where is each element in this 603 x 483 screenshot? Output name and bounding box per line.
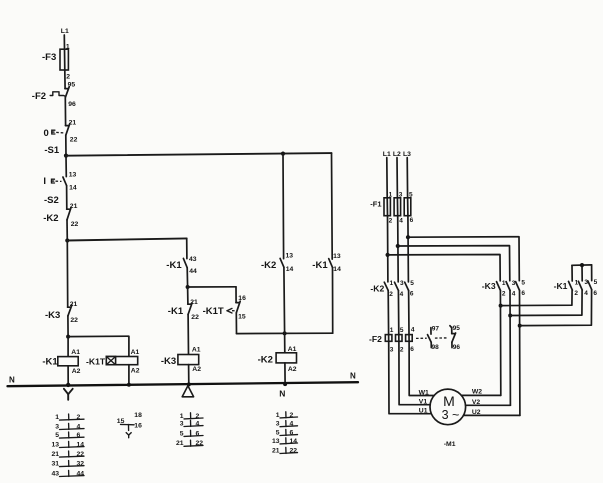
wire K2 contact to node B xyxy=(66,220,68,241)
svg-text:1: 1 xyxy=(575,280,579,287)
svg-text:3: 3 xyxy=(180,420,184,427)
junction dot K2 on N rail xyxy=(283,382,287,386)
svg-text:A1: A1 xyxy=(288,346,297,353)
wire F3 to F2 contact xyxy=(64,70,66,89)
wire L3 to fuse F1 xyxy=(406,158,408,198)
wire F1 pole3 down to K2 xyxy=(407,216,410,282)
svg-text:14: 14 xyxy=(286,266,294,273)
NC contact K3 21-22 xyxy=(68,305,72,316)
svg-text:N: N xyxy=(350,372,356,381)
thermal overload trip symbol of F2 xyxy=(50,92,65,97)
svg-text:-F3: -F3 xyxy=(42,52,56,63)
wire K3 pole3 down to motor U2 xyxy=(519,290,521,415)
svg-text:3: 3 xyxy=(390,346,394,353)
wire coil K1 to N rail xyxy=(67,366,69,385)
dashed link F2 to aux contacts xyxy=(416,337,448,340)
svg-text:98: 98 xyxy=(432,344,440,351)
node K3p1 junction dot xyxy=(499,304,503,308)
svg-text:2: 2 xyxy=(389,291,393,298)
junction dot K1T on N rail xyxy=(127,383,131,387)
wire K3 pole2 tap to K1 pole2 xyxy=(510,290,582,315)
NO aux contact F2 97-98 xyxy=(428,328,432,348)
wire motor W2 lead xyxy=(462,394,501,396)
svg-text:1: 1 xyxy=(390,327,394,334)
svg-text:13: 13 xyxy=(69,172,77,179)
svg-text:43: 43 xyxy=(51,470,59,477)
fuse F1 pole 1 xyxy=(384,198,390,216)
svg-text:5: 5 xyxy=(521,279,525,286)
wire K1 contact down to horizontal xyxy=(332,267,334,333)
svg-text:2: 2 xyxy=(400,346,404,353)
svg-text:1: 1 xyxy=(180,413,184,420)
svg-text:-S1: -S1 xyxy=(44,145,60,156)
wire L2 to fuse F1 xyxy=(396,158,398,198)
wire F1 pole1 down to K2 xyxy=(387,216,389,282)
wire feeder L3 to K3 pole3 xyxy=(408,237,519,281)
wire K3 pole2 down to motor V2 xyxy=(509,290,511,405)
svg-text:-K3: -K3 xyxy=(482,281,496,291)
svg-text:4: 4 xyxy=(512,290,516,297)
svg-text:5: 5 xyxy=(594,279,598,286)
svg-text:22: 22 xyxy=(70,317,78,324)
wire node E to coil K2 xyxy=(284,333,286,352)
svg-text:-K1T: -K1T xyxy=(203,306,224,317)
timed NC contact K1T 16-15 xyxy=(227,301,240,313)
svg-text:1: 1 xyxy=(390,280,394,287)
svg-text:3: 3 xyxy=(276,421,280,428)
coil K2 xyxy=(276,353,296,363)
wire F2 to S1 xyxy=(64,98,66,126)
svg-text:4: 4 xyxy=(400,291,404,298)
wire F2 pole1 to motor U1 xyxy=(389,341,432,413)
wire horizontal rail from S1 to right branches xyxy=(66,153,332,156)
svg-text:-S2: -S2 xyxy=(44,195,59,206)
svg-text:5: 5 xyxy=(410,280,414,287)
svg-text:N: N xyxy=(9,375,15,384)
delta symbol under K3 xyxy=(182,386,193,397)
wire top rail corner down to K1 aux NO xyxy=(331,153,334,259)
wire K3 pole1 down to motor W2 xyxy=(499,290,501,395)
junction dot K1 on N rail xyxy=(66,383,70,387)
motor M1 circle xyxy=(430,389,466,425)
fuse F1 pole 2 xyxy=(394,198,401,216)
svg-text:22: 22 xyxy=(191,314,199,321)
NO contact K2 13-14 xyxy=(280,258,284,267)
svg-text:A1: A1 xyxy=(131,349,140,356)
svg-text:13: 13 xyxy=(286,253,294,260)
contactor K2 main poles xyxy=(384,282,408,290)
node tap L2 junction dot xyxy=(396,244,400,248)
svg-text:-K3: -K3 xyxy=(45,310,60,321)
contact cross-reference table of K3 xyxy=(176,413,203,447)
NO contact K1 13-14 xyxy=(329,259,333,268)
svg-text:4: 4 xyxy=(399,217,403,224)
svg-text:2: 2 xyxy=(389,217,393,224)
N rail xyxy=(8,382,359,386)
svg-text:-K1T: -K1T xyxy=(86,357,106,367)
svg-text:-K2: -K2 xyxy=(370,284,384,294)
wire F2 pole2 to motor V1 xyxy=(399,341,431,404)
wire contact to node D xyxy=(186,268,188,287)
svg-text:L1: L1 xyxy=(383,151,391,158)
node star point junction dot xyxy=(580,263,584,267)
NC aux contact F2 95-96 xyxy=(450,326,456,348)
svg-text:A2: A2 xyxy=(192,366,201,373)
svg-text:W1: W1 xyxy=(419,389,429,396)
wire S2 to K2 NC contact xyxy=(66,186,68,210)
star bridge of K1 xyxy=(572,265,592,281)
svg-text:13: 13 xyxy=(272,438,280,445)
wire node B to K3 NC contact xyxy=(66,241,68,308)
wire node A to S2 xyxy=(65,156,67,177)
wire node D to K1 NC contact xyxy=(187,287,189,304)
pushbutton S2 (start, NO) xyxy=(52,177,67,186)
contact cross-reference table of K1T xyxy=(117,412,142,438)
fuse F3 xyxy=(60,49,68,70)
svg-text:-K1: -K1 xyxy=(42,357,58,368)
svg-text:V1: V1 xyxy=(419,399,428,406)
svg-text:5: 5 xyxy=(400,327,404,334)
svg-text:18: 18 xyxy=(134,412,142,419)
wire K1 NC to coil K3 xyxy=(187,314,189,354)
wire K3 pole1 tap to K1 pole1 xyxy=(501,290,572,305)
node A junction dot xyxy=(64,154,68,158)
coil K1 xyxy=(58,357,78,366)
svg-text:-K1: -K1 xyxy=(312,260,328,271)
star symbol under K1 xyxy=(64,389,73,400)
svg-text:W2: W2 xyxy=(472,389,482,396)
wire L1 to fuse F1 xyxy=(386,158,388,198)
wire K2 pole2 to F2 xyxy=(397,291,399,335)
svg-text:21: 21 xyxy=(272,447,280,454)
svg-text:-F2: -F2 xyxy=(32,91,46,102)
svg-text:3 ~: 3 ~ xyxy=(442,408,460,422)
svg-text:13: 13 xyxy=(51,441,59,448)
svg-text:1: 1 xyxy=(55,414,59,421)
svg-text:96: 96 xyxy=(453,344,461,351)
svg-text:1: 1 xyxy=(276,412,280,419)
wire middle branch down from node B rail xyxy=(186,238,188,258)
svg-text:6: 6 xyxy=(410,217,414,224)
svg-text:4: 4 xyxy=(584,290,588,297)
svg-text:3: 3 xyxy=(55,423,59,430)
wire K2 contact to node E xyxy=(283,267,286,333)
NC contact K1 21-22 xyxy=(188,303,192,314)
wire to K1T timed contact xyxy=(235,287,237,303)
svg-text:6: 6 xyxy=(593,290,597,297)
svg-text:43: 43 xyxy=(189,256,197,263)
node B junction dot xyxy=(65,238,69,242)
contact cross-reference table of K1 xyxy=(51,414,84,477)
svg-text:2: 2 xyxy=(66,74,70,81)
wire motor V2 lead xyxy=(466,404,511,406)
wire K1T contact down xyxy=(235,313,237,334)
svg-text:6: 6 xyxy=(410,291,414,298)
wire K2 pole3 to F2 xyxy=(408,291,410,335)
coil K1T (timer) xyxy=(106,357,137,365)
wire F2 pole3 to motor W1 xyxy=(409,341,434,395)
svg-text:-K2: -K2 xyxy=(43,213,58,224)
svg-text:3: 3 xyxy=(512,280,516,287)
svg-text:-K2: -K2 xyxy=(258,354,273,365)
fuse F1 pole 3 xyxy=(404,198,411,216)
svg-text:22: 22 xyxy=(70,136,78,143)
wire F1 pole2 down to K2 xyxy=(397,216,400,282)
svg-text:2: 2 xyxy=(502,291,506,298)
wire node D to K1T contact branch xyxy=(188,286,236,288)
wire node C to K1T coil branch xyxy=(68,336,129,356)
svg-text:V2: V2 xyxy=(472,399,481,406)
wire K3 pole3 tap to K1 pole3 xyxy=(520,290,592,326)
node D junction dot xyxy=(186,285,190,289)
svg-text:5: 5 xyxy=(55,432,59,439)
node F junction dot on top rail xyxy=(281,152,285,156)
svg-text:3: 3 xyxy=(400,280,404,287)
svg-text:U1: U1 xyxy=(419,408,428,415)
svg-text:-K3: -K3 xyxy=(161,356,176,367)
svg-text:95: 95 xyxy=(453,325,461,332)
contactor K3 main poles xyxy=(497,282,520,291)
node K3p2 junction dot xyxy=(508,314,512,318)
contact cross-reference table of K2 xyxy=(272,412,298,455)
wire node B to middle branch xyxy=(67,238,186,240)
svg-text:0: 0 xyxy=(44,128,49,139)
NO contact K1 43-44 xyxy=(183,258,187,267)
svg-text:I: I xyxy=(43,176,46,187)
svg-text:44: 44 xyxy=(189,268,197,275)
svg-text:14: 14 xyxy=(69,184,77,191)
junction dot K3 on N rail xyxy=(187,382,191,386)
svg-text:16: 16 xyxy=(134,423,142,430)
svg-text:21: 21 xyxy=(51,451,59,458)
wire coil K3 to N rail xyxy=(188,365,190,385)
svg-text:13: 13 xyxy=(333,253,341,260)
svg-text:-F1: -F1 xyxy=(370,199,381,208)
svg-text:96: 96 xyxy=(68,101,76,108)
node K3p3 junction dot xyxy=(518,324,522,328)
NC contact K2 21-22 xyxy=(67,208,71,220)
svg-text:A1: A1 xyxy=(192,346,201,353)
svg-text:-K1: -K1 xyxy=(168,306,184,317)
svg-text:-K2: -K2 xyxy=(261,260,276,271)
svg-text:6: 6 xyxy=(521,290,525,297)
node tap L1 junction dot xyxy=(386,253,390,257)
node tap L3 junction dot xyxy=(406,235,410,239)
svg-text:5: 5 xyxy=(180,430,184,437)
svg-text:2: 2 xyxy=(574,290,578,297)
contactor K1 main poles xyxy=(569,281,592,290)
svg-text:14: 14 xyxy=(333,266,341,273)
wire horizontal to K2 coil and K1 branch xyxy=(237,332,333,334)
svg-text:-K1: -K1 xyxy=(166,260,182,271)
svg-text:A1: A1 xyxy=(71,349,80,356)
wire L1 to fuse F3 xyxy=(63,35,65,49)
svg-text:6: 6 xyxy=(410,346,414,353)
coil K3 xyxy=(178,355,199,365)
wire top rail down to K2 aux NO xyxy=(282,154,285,259)
svg-text:-F2: -F2 xyxy=(369,334,382,344)
svg-text:97: 97 xyxy=(432,325,440,332)
svg-text:5: 5 xyxy=(276,429,280,436)
wire K3 contact to node C xyxy=(67,316,69,337)
svg-text:A2: A2 xyxy=(288,366,297,373)
svg-text:31: 31 xyxy=(51,461,59,468)
svg-text:L3: L3 xyxy=(403,151,411,158)
svg-text:M: M xyxy=(443,393,455,409)
svg-text:-K1: -K1 xyxy=(554,281,568,291)
wire node C to coil K1 xyxy=(67,337,69,357)
overload F2 heater pole 3 xyxy=(406,335,413,342)
NC contact F2 95-96 xyxy=(65,87,69,98)
svg-text:22: 22 xyxy=(71,221,79,228)
node E junction dot xyxy=(283,331,287,335)
wire K2 pole1 to F2 xyxy=(387,291,389,335)
svg-text:21: 21 xyxy=(176,440,184,447)
wire feeder L1 to K3 pole1 xyxy=(388,255,501,281)
wire S1 to node A xyxy=(65,135,67,155)
wire feeder L2 to K3 pole2 xyxy=(398,246,510,281)
svg-text:N: N xyxy=(279,389,285,399)
svg-text:15: 15 xyxy=(238,313,246,320)
svg-text:4: 4 xyxy=(411,327,415,334)
svg-text:A2: A2 xyxy=(72,368,81,375)
wire coil K2 to N rail xyxy=(284,363,286,384)
svg-text:U2: U2 xyxy=(472,409,481,416)
wire coil K1T to N rail xyxy=(128,365,130,385)
wire motor U2 lead xyxy=(463,414,520,416)
node C junction dot xyxy=(66,335,70,339)
svg-text:-M1: -M1 xyxy=(444,441,456,448)
svg-text:L1: L1 xyxy=(61,28,69,35)
overload F2 heater pole 1 xyxy=(385,335,392,342)
svg-text:3: 3 xyxy=(584,279,588,286)
pushbutton S1 (stop, NC) xyxy=(52,124,70,136)
svg-text:A2: A2 xyxy=(131,368,140,375)
svg-text:1: 1 xyxy=(502,280,506,287)
overload F2 heater pole 2 xyxy=(396,335,403,342)
svg-text:L2: L2 xyxy=(393,151,401,158)
